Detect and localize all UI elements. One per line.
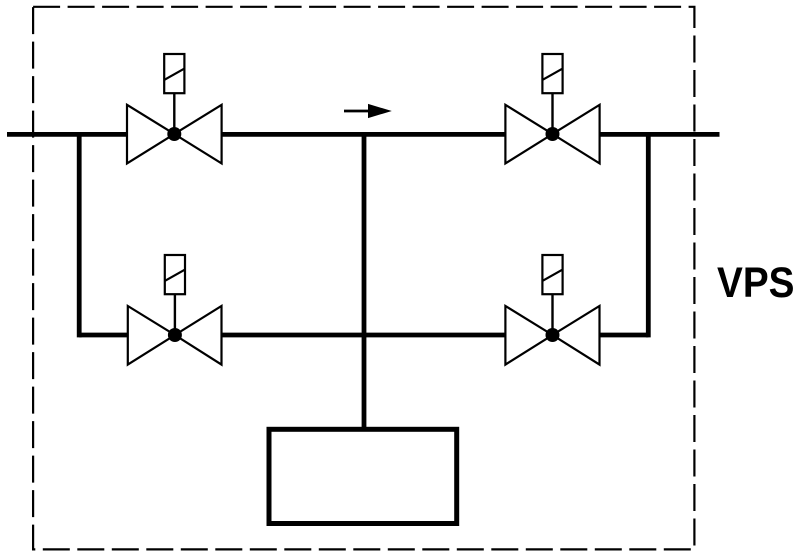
wire: main gas line middle segment bbox=[222, 132, 506, 137]
control unit box bbox=[269, 429, 457, 523]
valve V3 (bottom-left solenoid valve) bbox=[128, 255, 222, 365]
valve V2 (top-right solenoid valve) bbox=[505, 54, 599, 163]
valve V4 (bottom-right solenoid valve) bbox=[505, 255, 599, 365]
wire: lower branch middle segment bbox=[222, 333, 506, 338]
wire: lower branch right segment bbox=[600, 333, 649, 338]
valve V1 (top-left solenoid valve) bbox=[127, 54, 222, 163]
wire: main gas line right outlet segment bbox=[600, 132, 720, 137]
svg-text:VPS: VPS bbox=[717, 260, 793, 307]
wire: right bypass vertical bbox=[646, 132, 651, 337]
wire: main gas line left inlet segment bbox=[7, 132, 127, 137]
wire: center sensing line vertical to control unit bbox=[362, 134, 367, 430]
wire: left bypass vertical bbox=[77, 132, 82, 337]
wire: lower branch left segment bbox=[79, 333, 128, 338]
flow direction arrow bbox=[344, 104, 392, 118]
